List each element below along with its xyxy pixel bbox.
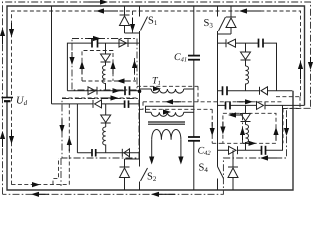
arrow on row2 (right) (113, 88, 121, 93)
arrow secondary lead left (down) (149, 157, 154, 165)
dashed y=98 left of transformer (62, 97, 138, 99)
switch S2 (bottom left) (141, 168, 148, 181)
arrow dashed cell right (up) (110, 61, 115, 69)
row2 wire y=90.7 (218, 90, 293, 92)
capacitor (row3 right) (261, 146, 263, 155)
left bridge leg (x=139.5) (139, 6, 141, 190)
inductor (cell middle, vertical coil) (246, 125, 249, 151)
diode D1 (antiparallel of S1) (120, 6, 140, 33)
diode (row2, pointing right) (88, 87, 97, 95)
arrow dashed cell left (up) (79, 61, 84, 69)
arrow dashed y=101.8 (right) (245, 99, 253, 104)
dashed y=141.8 connector (212, 142, 223, 144)
primary winding w1 (line y=89 with scallops) (140, 89, 194, 93)
arrow dashed x=212.2 (down) (210, 128, 215, 136)
capacitor (row3) (91, 149, 93, 157)
cell row1 wire y=43.1 (67, 43, 139, 91)
arrow secondary lead right (down) (178, 157, 183, 165)
arrow dashed LR box right (up) (273, 127, 278, 135)
arrow dashed beside leg (up) (132, 60, 137, 68)
diode (row2 right, pointing left) (260, 87, 268, 95)
diode (row105 right, pointing right) (257, 102, 266, 110)
wire: vertical from top rail to left row (x=51.5) (51, 6, 53, 104)
switch S4 (bottom right) (218, 167, 224, 179)
DC source Ud bars (2, 97, 14, 99)
arrow on cell chain box top (right) (93, 36, 101, 41)
arrow dashed LR box bottom (right) (249, 141, 257, 146)
arrow on dashed right (up) (298, 61, 303, 69)
arrow on chain bottom (left, left) (31, 192, 39, 197)
arrow on dashed bottom (right) (32, 182, 40, 187)
capacitor (row1 right) (258, 39, 260, 48)
winding w2 (hairpin + scallops) (146, 106, 194, 116)
switch S1 blade (141, 17, 148, 31)
arrow dashed LR box top (left) (228, 112, 236, 117)
dashed y=109.3 (140, 108, 213, 110)
arrow dashed y=98 (left) (111, 95, 119, 100)
arrow dashed cell bottom (left) (117, 78, 125, 83)
arrow on w2 (right) (163, 109, 171, 114)
dashed arrow path through S1 (132, 11, 134, 33)
capacitor (row104) (124, 100, 126, 108)
arrow dashed y=101.8 (left) (165, 99, 173, 104)
chain-dot path through cell branch (242, 113, 244, 143)
arrow on dashed left (down, upper) (9, 29, 14, 37)
switch S3 blade (219, 17, 226, 31)
capacitor (row2 right) (222, 86, 224, 95)
arrow on chain bottom (left, mid) (151, 192, 159, 197)
arrow on dashed top (left, right) (239, 8, 247, 13)
diode (row104, pointing left) (93, 100, 102, 108)
arrow on dashed top (left, left) (96, 8, 104, 13)
secondary winding (three tall loops) (152, 129, 181, 157)
diode (row3 right, pointing right) (229, 146, 238, 154)
row1 wire y=43.1 (218, 43, 277, 91)
dashed y=101.8 (143, 101, 283, 103)
row104 wire y=103.9 (52, 103, 140, 105)
dashed vertical through lower-left cell (68, 104, 70, 185)
arrow on dashed left (down, lower) (9, 136, 14, 144)
arrow on cell chain box left (down) (69, 57, 74, 65)
capacitor (row2) (124, 86, 126, 95)
dashed x=212.2 (211, 109, 213, 143)
cell left edge (76, 104, 78, 153)
chain-dot box around lower-left cell (62, 99, 139, 159)
dashed y=86.3 over transformer (137, 85, 198, 87)
diode (row1, pointing right) (119, 39, 128, 47)
dashed loop box inside lower-right cell (223, 113, 276, 143)
arrow on chain left (up, upper) (0, 28, 5, 36)
main circuit outer rectangle (solid) (7, 6, 305, 190)
inductor (cell middle, vertical coil) (103, 66, 106, 91)
dashed x=143 (142, 102, 144, 110)
inductor (cell middle, vertical coil) (103, 127, 106, 153)
node junction dot (138, 90, 142, 94)
arrow dashed x69.3 (up) (67, 137, 72, 145)
capacitor (row1) (91, 39, 93, 48)
inductor (cell middle, vertical coil) (246, 66, 249, 91)
diode D2 (antiparallel of S2) (120, 159, 140, 190)
diode (row3, pointing left) (122, 149, 129, 157)
capacitor leg (x=193.8) (193, 6, 195, 190)
arrow on w1 (right) (153, 86, 161, 91)
arrow on chain path x286.5 (down) (284, 128, 289, 136)
dashed loop inside upper-left cell (82, 51, 136, 82)
row3 wire y=152.8 (77, 152, 139, 154)
capacitor C42 (188, 136, 200, 138)
right bridge leg (x=217.5) (217, 6, 219, 190)
arrow on chain path y158 (left) (260, 155, 268, 160)
dashed current loop rectangle (12, 11, 301, 185)
arrow on chain right (down) (308, 62, 313, 70)
diode (cell middle, pointing down) (101, 43, 111, 65)
chain-dot continuation below lower-left cell (60, 158, 62, 186)
arrow on chain left (up, lower) (0, 131, 5, 139)
outer chain-dot current loop (3, 2, 311, 194)
arrow on lower cell chain left (down) (59, 125, 64, 133)
chain-dot box around upper-left cell (72, 39, 137, 91)
diode (cell middle, pointing down) (241, 43, 251, 66)
row3 wire y=150.3 (218, 105, 283, 150)
arrow chain x242.5 (up) (240, 127, 245, 135)
dashed x=198 (197, 86, 199, 102)
diode (cell middle, pointing down) (241, 105, 251, 124)
row 105.4 wire (218, 104, 305, 106)
diode D4 (antiparallel of S4) (228, 150, 238, 190)
capacitor (row105 right) (225, 101, 227, 109)
capacitor C41 (188, 55, 200, 57)
arrow dashed LR box left (up) (220, 127, 225, 135)
diode (cell middle, pointing down) (101, 104, 111, 127)
transformer core lines (148, 121, 185, 123)
arrow on chain top (right) (100, 0, 108, 5)
cell row2 wire y=90.7 (67, 90, 139, 92)
diode (row1 right, pointing left) (226, 39, 236, 47)
diode D3 (antiparallel of S3) (218, 6, 237, 34)
